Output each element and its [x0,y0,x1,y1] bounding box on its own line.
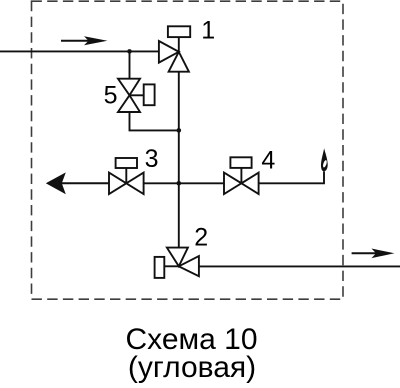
actuator box V3 [116,158,137,168]
actuator box V4 [230,157,251,168]
wire: valve 4 to flame riser [259,172,324,184]
wire: outlet line right [199,265,400,267]
svg-text:4: 4 [261,147,275,175]
dashed boundary box [32,1,344,299]
node: junction above valve 5 [127,49,132,54]
node: junction below valve 1 [177,128,182,133]
flow arrow (outlet right) [352,249,395,259]
actuator stem V4 [240,168,242,183]
actuator box V5 [144,84,155,105]
wire: below valve 5 to junction [130,112,179,130]
wire: middle line between valve 3 and valve 4 [144,182,224,184]
flame symbol (pilot burner) [321,148,328,171]
node: junction on middle line [177,181,182,186]
actuator stem V2 [164,265,179,267]
flow arrow (outlet left) [46,172,109,194]
valve V4 (straight valve, horizontal) [224,173,259,194]
valve V5 (straight valve, vertical) [118,79,140,112]
flow arrow (inlet) [61,36,107,45]
wire: inlet line [0,50,159,52]
actuator box V2 [155,257,165,278]
actuator box V1 [168,26,190,37]
svg-text:1: 1 [201,16,215,44]
valve V3 (straight valve, horizontal) [109,173,144,194]
svg-text:5: 5 [104,81,118,109]
valve V1 (angle valve) [159,41,189,72]
actuator stem V5 [130,94,144,96]
wire: vertical main from valve 1 to valve 2 [178,72,180,248]
valve V2 (angle valve) [167,248,199,277]
svg-text:(угловая): (угловая) [128,351,256,384]
svg-text:2: 2 [194,224,208,252]
svg-text:3: 3 [145,145,159,173]
wire: branch down to valve 5 [129,51,131,78]
actuator stem V3 [125,168,127,183]
actuator stem V1 [178,37,180,52]
